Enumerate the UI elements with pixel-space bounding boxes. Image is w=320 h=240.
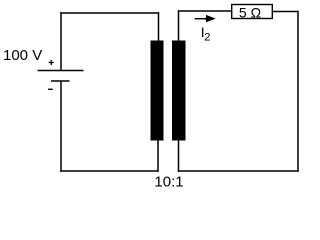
- wire primary to transformer top: [158, 12, 160, 41]
- battery V1 positive plate: [38, 70, 84, 72]
- wire secondary riser: [178, 10, 180, 41]
- resistor R1 box: [232, 5, 273, 19]
- svg-text:2: 2: [204, 31, 210, 43]
- transformer T1 secondary winding bar: [172, 41, 186, 141]
- wire right vertical: [297, 11, 299, 172]
- wire resistor to right: [273, 11, 298, 13]
- svg-text:5 Ω: 5 Ω: [239, 4, 261, 20]
- wire secondary top: [178, 10, 231, 12]
- current arrow I2: [195, 15, 216, 22]
- wire primary top: [60, 12, 159, 14]
- svg-text:100 V: 100 V: [3, 47, 42, 64]
- wire primary bottom: [60, 170, 158, 172]
- wire primary to transformer bottom: [157, 140, 159, 172]
- label -: [48, 88, 53, 90]
- label I2: [201, 24, 211, 43]
- transformer T1 primary winding bar: [151, 41, 164, 141]
- wire secondary bottom: [178, 170, 299, 172]
- label +: [49, 60, 54, 65]
- battery V1 negative plate: [51, 80, 70, 82]
- wire secondary bar stub bottom: [178, 140, 180, 172]
- svg-text:10:1: 10:1: [154, 173, 183, 190]
- wire primary left lower: [60, 81, 62, 172]
- wire primary left upper: [60, 12, 62, 70]
